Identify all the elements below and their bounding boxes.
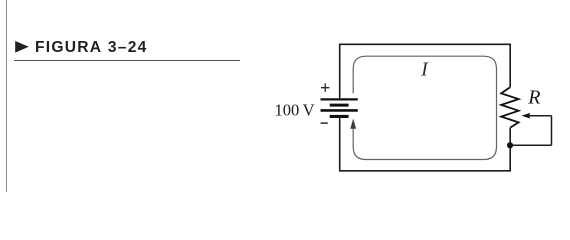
- wire: wiper right vertical run: [551, 116, 553, 146]
- wire: wiper horizontal run: [529, 115, 552, 117]
- rheostat wiper arrow (points left into zigzag): [522, 113, 531, 119]
- battery plate short (negative, cell 1): [330, 104, 349, 107]
- wire: wiper bottom return to junction: [510, 144, 552, 146]
- junction node dot: [507, 142, 513, 148]
- resistor R (zigzag): [501, 87, 518, 127]
- current loop arrowhead (points up toward battery minus): [350, 119, 356, 129]
- battery plate long (positive, cell 2): [321, 109, 358, 112]
- svg-text:100 V: 100 V: [275, 101, 315, 120]
- battery VS 100 V : plate long (positive, cell 1): [321, 98, 358, 100]
- battery polarity label -: [321, 122, 328, 124]
- wire: bottom + lower-left + lower-right segments of outer loop: [340, 118, 511, 171]
- caption underline rule: [14, 60, 240, 62]
- svg-text:I: I: [420, 59, 429, 81]
- figure caption marker triangle: [0, 0, 40, 60]
- figure caption text FIGURA 3-24: [35, 40, 148, 56]
- battery polarity label +: [321, 84, 329, 92]
- current direction loop (gray rounded guide): [353, 56, 496, 159]
- circuit schematic: [0, 0, 570, 192]
- page margin rule (left vertical gray line): [6, 0, 7, 192]
- svg-text:R: R: [527, 87, 540, 109]
- wire: top + upper-left segment of outer loop: [340, 44, 511, 98]
- battery plate short (negative, cell 2): [330, 115, 349, 118]
